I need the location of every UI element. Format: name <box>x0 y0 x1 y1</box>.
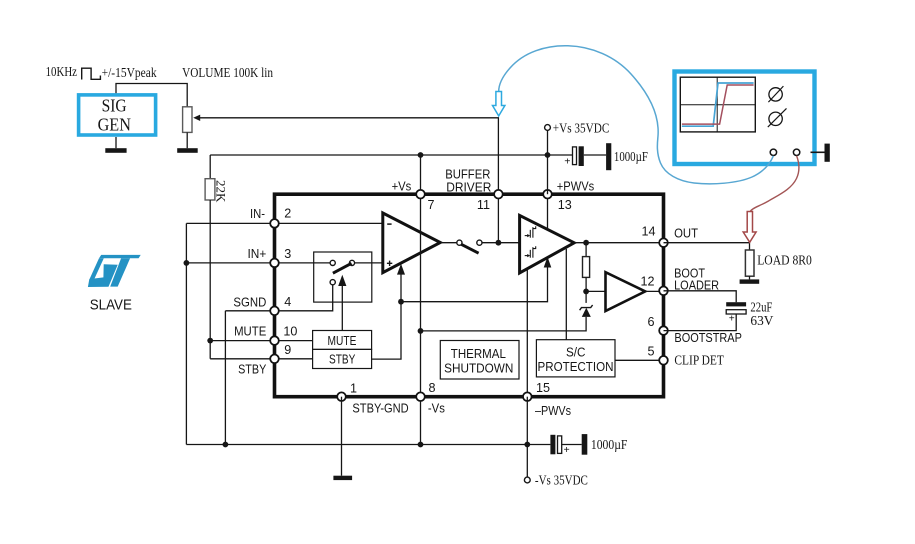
capacitor 22uF plus plate <box>726 310 746 314</box>
stby arrow at opamp1 <box>397 264 405 275</box>
wire sig gen top to potentiometer <box>116 84 187 107</box>
oscilloscope box <box>675 72 815 165</box>
+Vs supply terminal <box>545 125 551 131</box>
thermal shutdown box <box>440 341 519 380</box>
svg-text:10: 10 <box>283 325 297 339</box>
junction rail pin7 <box>418 152 424 158</box>
negative supply bus <box>186 444 550 446</box>
pin 1 <box>337 392 346 401</box>
wire pin3 to switch inside <box>275 262 333 264</box>
pin 15 <box>523 392 532 401</box>
wire switch2 to power amp <box>482 242 520 244</box>
svg-text:MUTE: MUTE <box>328 334 357 348</box>
svg-text:22K: 22K <box>214 180 229 203</box>
pin 10 <box>270 336 279 345</box>
-Vs supply terminal <box>524 477 530 483</box>
red trace <box>682 85 754 124</box>
junction IN+ <box>184 260 190 266</box>
wire pin1 to ground <box>341 397 343 476</box>
internal -Vs vertical line <box>420 155 422 445</box>
scope jack 2 <box>793 149 799 155</box>
svg-text:-Vs 35VDC: -Vs 35VDC <box>535 474 588 489</box>
svg-text:BOOTSTRAP: BOOTSTRAP <box>674 330 742 345</box>
opamp minus label <box>387 223 391 225</box>
svg-text:2: 2 <box>284 207 291 221</box>
junction pin8 bus <box>418 442 424 448</box>
wire SGND external <box>225 311 274 445</box>
scope knob 1 <box>769 88 782 101</box>
resistor 22K <box>205 179 215 200</box>
junction out-resistor <box>583 240 589 246</box>
resistor LOAD 8R0 <box>745 250 754 276</box>
svg-text:+: + <box>564 156 570 168</box>
svg-text:13: 13 <box>558 198 572 212</box>
pin 2 <box>270 219 279 228</box>
svg-text:+: + <box>729 314 735 325</box>
wire pin9 to stby box <box>275 358 313 360</box>
wire to bootstrap resistor <box>585 243 587 257</box>
wire pin11 down to junction <box>497 194 499 243</box>
IC main block border <box>275 194 664 397</box>
pin 5 <box>659 356 668 365</box>
screen grid lines <box>680 77 755 132</box>
power amp triangle <box>520 215 575 273</box>
switch contact c <box>330 280 335 285</box>
svg-text:SLAVE: SLAVE <box>90 297 132 314</box>
wire pin2 to opamp inside <box>275 222 383 224</box>
svg-text:MUTE: MUTE <box>234 324 266 339</box>
svg-text:4: 4 <box>284 295 291 309</box>
oscilloscope screen <box>680 77 755 132</box>
wire sig gen bottom <box>115 137 117 148</box>
svg-text:SHUTDOWN: SHUTDOWN <box>444 362 513 376</box>
svg-text:3: 3 <box>284 247 291 261</box>
svg-text:1000µF: 1000µF <box>614 149 648 164</box>
svg-text:LOAD 8R0: LOAD 8R0 <box>757 253 812 268</box>
input switch box <box>314 252 372 302</box>
junction rail pin13 <box>545 152 551 158</box>
svg-text:+/-15Vpeak: +/-15Vpeak <box>102 65 157 80</box>
ground stby-gnd <box>333 476 352 480</box>
wire opamp out to switch2 <box>440 242 456 244</box>
blue arrow marker <box>493 92 505 116</box>
red probe lead curve <box>750 156 799 212</box>
wire stby row <box>210 358 274 360</box>
scope jack 1 <box>770 149 776 155</box>
svg-text:PROTECTION: PROTECTION <box>538 360 614 374</box>
wire mute row <box>210 340 274 342</box>
junction 22K-MUTE <box>207 338 213 344</box>
svg-text:S/C: S/C <box>566 346 586 360</box>
wire pot bottom <box>186 132 188 148</box>
svg-text:11: 11 <box>477 198 490 212</box>
wire switch to opamp plus <box>352 262 382 264</box>
wire cap to terminal bar <box>584 154 606 156</box>
wire pin13 into power amp <box>547 194 549 229</box>
red arrow marker <box>743 212 756 243</box>
terminal bar bottom cap <box>582 434 588 455</box>
pin 13 <box>543 190 552 199</box>
junction SGND-bus <box>223 442 229 448</box>
junction pin15 bus <box>524 442 530 448</box>
pin 14 <box>659 238 668 247</box>
svg-text:STBY: STBY <box>329 353 356 367</box>
svg-text:+Vs 35VDC: +Vs 35VDC <box>553 121 610 136</box>
switch contact b <box>349 260 354 265</box>
pin 9 <box>270 355 279 364</box>
capacitor 1000uF bottom plus plate <box>558 436 562 454</box>
ground under load <box>740 279 760 283</box>
svg-text:STBY: STBY <box>238 362 266 377</box>
resistor bootstrap internal <box>583 257 590 278</box>
capacitor 1000uF bottom solid plate <box>550 435 555 455</box>
wire OUT external <box>664 243 750 250</box>
svg-text:14: 14 <box>641 224 655 238</box>
pin 7 <box>416 190 425 199</box>
svg-text:–PWVs: –PWVs <box>535 403 571 418</box>
+Vs rail wire <box>210 154 572 156</box>
switch contact a <box>330 260 335 265</box>
junction zener return <box>418 328 424 334</box>
svg-text:STBY-GND: STBY-GND <box>352 400 408 415</box>
svg-text:1: 1 <box>350 382 357 396</box>
s/c protection box <box>536 340 615 377</box>
wire power amp to SC protection <box>565 249 567 340</box>
wire rail down to 22K <box>209 155 211 179</box>
wire junction to buffer triangle <box>586 290 605 292</box>
buffer triangle pin12 <box>606 272 646 311</box>
svg-text:+PWVs: +PWVs <box>557 179 595 194</box>
svg-text:VOLUME 100K lin: VOLUME 100K lin <box>182 65 273 80</box>
svg-text:8: 8 <box>429 381 436 395</box>
blue trace <box>682 83 754 126</box>
svg-text:7: 7 <box>428 198 435 212</box>
svg-text:+Vs: +Vs <box>392 179 412 194</box>
square pulse glyph <box>82 68 101 79</box>
wire resistor to junction <box>585 277 587 303</box>
svg-text:5: 5 <box>647 345 654 359</box>
switch2 contact b <box>477 240 482 245</box>
terminal bar top cap <box>606 143 611 170</box>
svg-text:OUT: OUT <box>674 226 698 241</box>
switch blade <box>333 263 352 273</box>
stby box <box>313 349 372 368</box>
svg-text:1000µF: 1000µF <box>591 437 628 452</box>
ground under potentiometer <box>177 148 198 153</box>
scope knob 2 <box>769 112 782 125</box>
wire IN+ external <box>186 262 274 264</box>
wire power amp bottom to pin15 <box>526 269 528 397</box>
capacitor 22uF solid plate <box>726 302 746 306</box>
mosfet glyph upper <box>525 226 536 237</box>
wire pin10 to mute box <box>275 340 313 342</box>
svg-text:THERMAL: THERMAL <box>451 347 506 361</box>
svg-text:63V: 63V <box>750 313 773 328</box>
wire pin15 down <box>526 397 528 478</box>
svg-text:SGND: SGND <box>233 294 266 309</box>
pin 3 <box>270 259 279 268</box>
wire stby branch to power arrow <box>401 267 548 302</box>
sig gen box <box>79 95 156 135</box>
potentiometer wiper arrow <box>193 115 200 121</box>
svg-text:DRIVER: DRIVER <box>446 180 491 195</box>
pin 12 <box>659 287 668 296</box>
wire sc protection to pin5 <box>615 359 664 361</box>
svg-text:9: 9 <box>284 343 291 357</box>
pin 8 <box>416 392 425 401</box>
wire cap to pin6 <box>664 314 737 331</box>
wire wiper to pin 11 corner <box>200 118 499 194</box>
blue probe lead curve <box>499 46 774 184</box>
svg-text:GEN: GEN <box>98 115 131 135</box>
svg-text:CLIP DET: CLIP DET <box>674 354 724 369</box>
wire IN- external <box>186 222 274 224</box>
mosfet glyph lower <box>525 246 536 258</box>
mute box <box>313 331 372 350</box>
svg-text:10KHz: 10KHz <box>46 64 77 79</box>
junction stby branch <box>398 299 404 305</box>
pin 6 <box>659 326 668 335</box>
wire pin12 to bootstrap cap <box>664 291 737 302</box>
junction pin11 line <box>496 240 502 246</box>
svg-text:+: + <box>564 444 570 456</box>
pin 4 <box>270 307 279 316</box>
wire stby box to vertical <box>372 303 401 359</box>
svg-text:IN-: IN- <box>250 206 265 221</box>
zener diode <box>582 308 591 317</box>
wire 22K down to MUTE/STBY <box>209 200 211 359</box>
pin 11 <box>494 190 503 199</box>
wire input ground vertical <box>185 223 187 444</box>
svg-text:-Vs: -Vs <box>428 401 445 416</box>
stby arrow at power stage <box>544 257 552 268</box>
mute control arrow <box>338 275 346 286</box>
wire buffer to pin12 <box>645 290 663 292</box>
op-amp U1 input stage <box>383 213 441 273</box>
potentiometer VOLUME body <box>183 107 192 133</box>
capacitor 1000uF top solid plate <box>579 146 584 166</box>
ground under sig gen <box>105 148 126 153</box>
opamp plus label <box>387 261 392 266</box>
wire power out to pin14 <box>574 242 663 244</box>
svg-text:SIG: SIG <box>102 96 127 116</box>
wire pin4 SGND inside <box>275 285 333 311</box>
junction resistor-buffer <box>583 289 589 295</box>
scope side connector <box>811 151 825 153</box>
wire cap to terminal bar bottom <box>562 444 582 446</box>
wire load to ground <box>749 276 751 279</box>
svg-text:15: 15 <box>536 381 550 395</box>
capacitor 1000uF top plus plate <box>573 147 577 165</box>
wire zener to -Vs line <box>421 317 587 331</box>
ST logo <box>88 255 141 287</box>
svg-text:6: 6 <box>647 315 654 329</box>
switch2 contact a <box>457 240 462 245</box>
svg-text:IN+: IN+ <box>248 246 267 261</box>
svg-text:12: 12 <box>640 275 654 289</box>
switch2 blade <box>461 244 479 253</box>
